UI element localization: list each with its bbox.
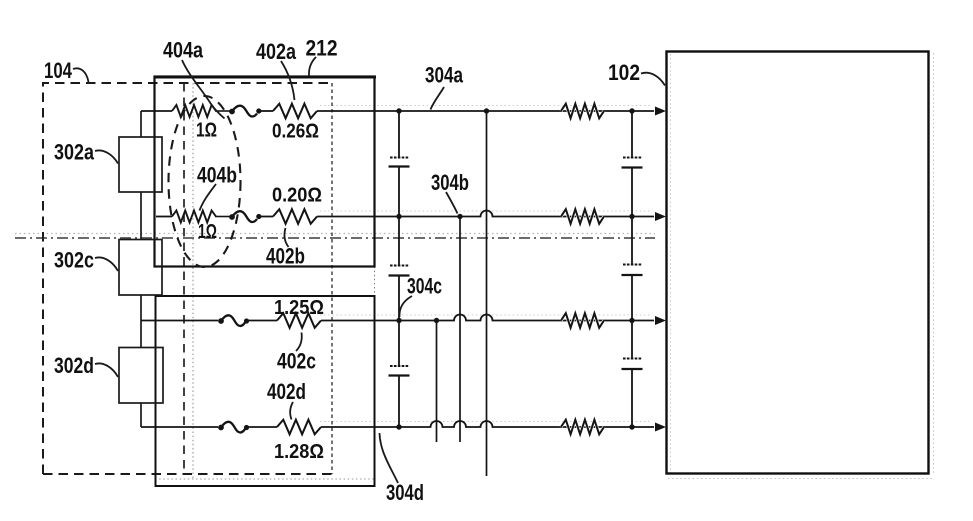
resistor 402d 1.28ohm [277,420,321,435]
faint dotted vertical line [192,83,194,479]
right capacitor column vertical segments [631,111,633,427]
resistor line4 (unlabeled) [561,420,604,435]
resistor 402c 1.25ohm [277,313,321,328]
leader 102 [641,73,665,86]
dotted joiner between box right edges [374,267,376,297]
svg-text:212: 212 [306,36,338,61]
svg-text:102: 102 [608,60,640,85]
resistor line3 (unlabeled) [561,313,604,328]
tap line from wire3 down [436,321,438,443]
leader 104 [73,68,89,82]
tap line from wire2 down [459,217,461,443]
wire 1 (304a) [141,110,172,112]
resistor 404a 1ohm [172,105,216,117]
arrow wire 4 into 102 [655,423,666,432]
wire 4 (304d) [141,426,218,428]
wire 3 (304c) [141,320,218,322]
svg-text:304b: 304b [431,170,469,195]
leader 302a [95,150,118,163]
junction dot wire3 squiggle end [244,318,249,323]
node dots wire 4 [396,424,401,429]
leader 302d [95,363,118,377]
dashed vertical divider inside 104 [183,83,185,474]
svg-text:104: 104 [44,58,73,83]
leader 402d [290,402,293,420]
wire 4 middle segment [247,426,278,428]
resistor line1 (unlabeled) [561,104,604,119]
leader 212 [309,57,316,76]
leader 304d [380,433,399,483]
svg-text:1.25Ω: 1.25Ω [274,297,324,319]
node dots wire 1 [396,108,401,113]
svg-text:402d: 402d [267,379,306,404]
dashed enclosure 104 (left, top, bottom edges) [43,83,332,474]
arrow wire 2 into 102 [655,212,666,221]
load box 102 [667,52,929,474]
svg-text:402b: 402b [266,244,305,269]
svg-text:304a: 304a [425,63,464,88]
capacitor C1 left (top plate dashed) [390,157,409,159]
leader 304b [446,192,458,214]
capacitor C2 right [623,264,642,266]
box 102 scan halo lines [933,53,935,474]
wire 4 with hops [321,421,654,427]
svg-text:302d: 302d [54,353,94,378]
leader 302c [95,257,118,271]
dashed enclosure 104 right edge (fine dashes) [331,83,333,474]
arrow wire 3 into 102 [655,316,666,325]
svg-text:304d: 304d [386,480,424,505]
wire 1 middle segment [259,110,273,112]
junction dot wire2 squiggle end [256,214,261,219]
wire 3 with hops [321,315,654,321]
node dots wire 3 [396,318,401,323]
centerline (axis of symmetry) upper dotted [15,233,655,235]
faint dotted horizontal line [155,478,375,480]
svg-text:404b: 404b [197,163,237,188]
capacitor C3 right [623,358,642,360]
svg-text:1.28Ω: 1.28Ω [274,441,324,463]
leader 404a [182,60,225,119]
battery cell 302d [119,348,163,404]
wire 4 squiggle [218,425,224,431]
wire 2 with hop over tap line [317,211,654,217]
battery cell 302a [119,137,162,192]
resistor network box 212 (upper) [154,76,377,79]
resistor 402a 0.26ohm [273,104,317,119]
wire 1 squiggle (weld joint) [215,110,230,112]
wire 2 middle segment [259,216,273,218]
wire 3 squiggle [218,318,224,324]
junction dot wire4 squiggle end [244,425,249,430]
capacitor C2 left [390,265,409,267]
wire 2 squiggle [215,216,230,218]
resistor 404b 1ohm [172,211,216,223]
resistor 402b 0.20ohm [273,209,317,224]
capacitor C3 left [390,365,409,367]
svg-text:404a: 404a [163,38,204,63]
dashed highlight ellipse around 1-ohm resistors [169,96,241,267]
resistor line2 (unlabeled) [561,209,604,224]
wire 2 (304b) [156,216,172,218]
svg-text:1Ω: 1Ω [196,120,217,142]
svg-text:402c: 402c [277,349,316,374]
svg-text:1Ω: 1Ω [198,221,217,243]
leader 304a [431,87,445,110]
capacitor C1 right [623,157,642,159]
resistor network box lower [156,296,375,486]
tap line from wire1 down [486,111,488,476]
centerline (axis of symmetry) dash-dot [15,237,655,239]
wire 3 middle segment [247,320,278,322]
junction dot wire1 squiggle end [256,108,261,113]
wire halo artifacts [320,105,652,107]
svg-text:0.26Ω: 0.26Ω [272,121,319,143]
leader 402b [284,228,288,247]
svg-text:302c: 302c [54,248,94,273]
wire 1 to load [317,110,654,112]
battery cell 302c [119,240,162,296]
leader 402a [281,61,295,100]
arrow wire 1 into 102 [655,107,666,116]
left capacitor column vertical segments [398,111,400,427]
leader 402c [296,333,302,352]
svg-text:302a: 302a [54,140,95,165]
svg-text:304c: 304c [407,274,442,299]
leader 304c [399,296,412,317]
node dots wire 2 [396,214,401,219]
svg-text:0.20Ω: 0.20Ω [272,185,322,207]
leader 404b [200,184,217,211]
svg-text:402a: 402a [256,39,297,64]
cell series chain leads at x=141 [140,111,142,427]
